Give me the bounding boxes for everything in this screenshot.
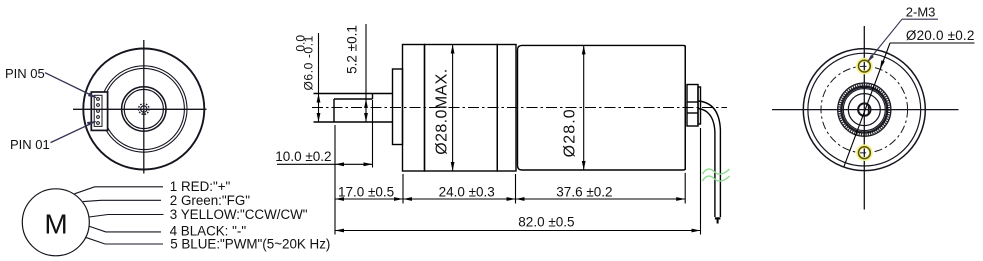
dimension row 1 line [335,198,685,200]
rear connector divider 1 [687,101,698,103]
front view shaft dashed circle [139,104,150,115]
arrowheads [317,45,701,233]
dia6 top arrow [317,94,321,103]
extension line gearbox rear [515,174,517,204]
rear boss circle [842,87,887,132]
dia28 bottom arrow [582,161,586,170]
front view shaft circle [141,106,147,112]
svg-text:Ø28.0MAX.: Ø28.0MAX. [433,68,450,154]
svg-text:2 Green:"FG": 2 Green:"FG" [170,193,250,208]
knurled ring texture [839,85,889,135]
37.6 left arrow [516,197,525,201]
rear view horizontal centerline [772,109,959,111]
connector pin 2 [97,116,100,119]
left extension line (shaft tip) [334,125,336,235]
PIN 05 leader line [45,73,96,98]
dia20 leader line [844,43,890,167]
front view shaft flat line [143,109,145,114]
dia28max dimension line [452,45,454,172]
svg-text:24.0 ±0.3: 24.0 ±0.3 [439,185,495,200]
bearing boss rect [393,69,403,145]
svg-text:1 RED:"+": 1 RED:"+" [170,179,231,194]
dia20 underline [890,42,975,44]
wire end stub [717,219,719,224]
connector pin 3 [97,110,100,113]
svg-text:Ø28.0: Ø28.0 [562,108,579,157]
gearbox rear plate [497,45,516,172]
5.2 top arrow [364,99,368,108]
rear view inner ring circle [808,53,921,166]
rear boss circle 2 [843,89,885,131]
svg-text:Ø6.0 -0.1: Ø6.0 -0.1 [302,35,316,90]
rear view outer circle [803,49,925,171]
svg-text:82.0 ±0.5: 82.0 ±0.5 [518,215,574,230]
knurled ring inner circle [841,86,888,133]
M3 hole bottom [859,147,871,159]
extension line gearbox face [402,174,404,204]
wire end tip [715,217,721,219]
M3 hole bottom glow [858,146,871,159]
connector housing outer rect [91,92,107,130]
wire 2 [83,200,161,201]
svg-text:5.2 ±0.1: 5.2 ±0.1 [345,25,360,74]
svg-text:2-M3: 2-M3 [906,5,936,20]
shaft bottom line [314,121,393,123]
gearbox body [425,45,498,172]
M3 hole top [859,60,871,72]
shaft flat line [334,98,373,100]
24.0 right arrow [507,197,516,201]
10.0 dimension line [277,163,373,165]
front view horizontal centerline [73,108,207,110]
shaft top line [314,93,393,95]
wire break mark 1 (green) [703,169,730,174]
svg-text:5 BLUE:"PWM"(5~20K Hz): 5 BLUE:"PWM"(5~20K Hz) [170,237,330,252]
svg-text:3 YELLOW:"CCW/CW": 3 YELLOW:"CCW/CW" [170,207,308,222]
svg-text:37.6 ±0.2: 37.6 ±0.2 [556,185,612,200]
wire 4 [90,226,162,232]
motor rear face [684,45,686,170]
5.2 bottom arrow [364,113,368,122]
17.0 left arrow [335,197,344,201]
dia6 dimension line [318,33,320,122]
10.0 left arrow [335,162,344,166]
2-M3 leader arrowhead [867,55,874,63]
rear connector cap plate [698,87,701,124]
dia20 leader arrowhead [880,60,885,69]
gearbox front plate [403,45,425,172]
shaft hole flat chord [867,105,869,115]
extension line motor rear [684,173,686,204]
dia28 dimension line [583,45,585,170]
knurled ring outer circle [838,83,891,136]
24.0 left arrow [403,197,412,201]
shaft tip face [333,99,335,122]
extension line flat end [372,100,374,168]
wire 1 [75,187,164,194]
svg-text:M: M [44,209,67,240]
svg-text:10.0 ±0.2: 10.0 ±0.2 [275,149,331,164]
side view centerline [312,107,727,109]
motor symbol circle [22,189,89,256]
connector pin 1 [97,122,100,125]
82.0 right arrow [692,229,701,233]
PIN 01 leader line [51,122,96,143]
wire break mark 2 (green) [703,176,730,181]
5.2 dimension line [365,24,367,122]
motor body [518,45,686,170]
bolt circle (dashed) [821,66,908,153]
front view vertical centerline [143,40,145,174]
shaft hole circle [858,103,870,115]
connector pin 5 [97,98,100,101]
17.0 right arrow [394,197,403,201]
rear view vertical centerline [863,26,865,210]
front view boss inner circle [124,89,163,128]
dia28 top arrow [582,45,586,54]
svg-text:17.0 ±0.5: 17.0 ±0.5 [338,185,394,200]
dimensioning [277,24,701,235]
rear connector block [687,85,698,127]
wire outer curve [698,101,720,217]
82.0 left arrow [335,229,344,233]
10.0 right arrow [364,162,373,166]
PIN 01 leader arrowhead [87,121,97,126]
wire 3 [89,215,164,218]
svg-text:Ø20.0 ±0.2: Ø20.0 ±0.2 [906,28,975,43]
extension line 82 right [700,128,702,235]
2-M3 underline [902,18,938,20]
37.6 right arrow [676,197,685,201]
dia28max bottom arrow [451,162,455,171]
svg-text:PIN 05: PIN 05 [5,66,45,81]
PIN 05 leader arrowhead [88,93,97,98]
motor front view outer circle [83,49,204,170]
M3 hole top glow [858,60,871,73]
connector inner rect [94,95,102,126]
dimension row 2 line [335,230,701,232]
front view boss outer circle [122,87,166,131]
wire inner curve [698,109,715,218]
dia6 bottom arrow [317,113,321,122]
connector pin 4 [97,104,100,107]
svg-text:PIN 01: PIN 01 [10,137,50,152]
2-M3 leader line [869,19,903,60]
front view inner ring inner circle [103,68,184,149]
shaft flat end vertical [372,94,374,100]
rear connector divider 2 [687,112,698,114]
rear boss inner circle [848,94,880,126]
wire 5 [85,237,163,244]
dia28max top arrow [451,45,455,54]
front view inner ring outer circle [101,66,187,152]
